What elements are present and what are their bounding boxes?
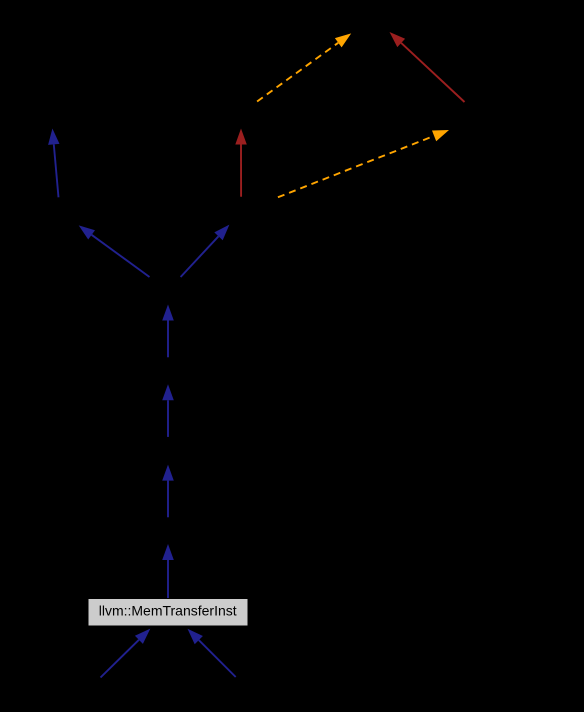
template relation arrow: ilist_node_with_parent -> ilist_node xyxy=(274,130,449,199)
inheritance arrow: User -> Value xyxy=(48,129,59,198)
private inheritance arrow: ilist_node -> ilist_node_impl template xyxy=(390,32,465,102)
inheritance arrow: MemCpyInst -> MemTransferInst xyxy=(101,629,151,678)
inheritance arrow: CallBase -> Instruction xyxy=(162,305,174,358)
orange dashed template-instance edges xyxy=(255,33,449,198)
dark red private-inheritance edges xyxy=(235,32,464,197)
inheritance arrow: IntrinsicInst -> CallInst xyxy=(162,465,174,518)
inheritance arrow: MemIntrinsic -> IntrinsicInst xyxy=(162,544,174,599)
svg-text:llvm::MemTransferInst: llvm::MemTransferInst xyxy=(99,602,237,618)
inheritance arrow: Instruction -> User (left branch) xyxy=(79,225,150,277)
inheritance arrow: CallInst -> CallBase xyxy=(162,384,174,437)
blue public-inheritance edges xyxy=(48,129,236,678)
inheritance arrow: MemMoveInst -> MemTransferInst xyxy=(188,629,236,677)
template relation arrow: ilist_node_impl instance -> ilist_node_impl&lt;OptionsT&gt; xyxy=(255,33,351,103)
private inheritance arrow: ilist_node_with_parent -> ilist_node_impl xyxy=(235,129,247,197)
inheritance arrow: Instruction -> ilist_node_with_parent (right branch) xyxy=(181,225,230,277)
node llvm::MemTransferInst (highlighted current-class box) xyxy=(88,599,248,627)
